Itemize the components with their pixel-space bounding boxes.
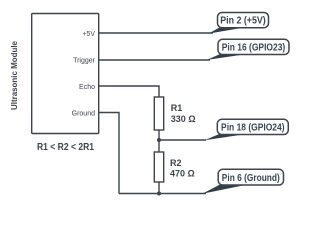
wire R1 to R2 bbox=[158, 130, 160, 152]
svg-text:Pin 16 (GPIO23): Pin 16 (GPIO23) bbox=[222, 43, 286, 54]
svg-text:R1 < R2 < 2R1: R1 < R2 < 2R1 bbox=[37, 142, 94, 153]
ultrasonic module U1 box bbox=[32, 14, 99, 134]
svg-text:Ground: Ground bbox=[72, 111, 95, 118]
callout Pin 2 (+5V) bbox=[209, 13, 269, 34]
svg-text:R1: R1 bbox=[171, 103, 183, 113]
svg-text:Pin 2 (+5V): Pin 2 (+5V) bbox=[220, 16, 266, 27]
wire Echo to R1 bbox=[99, 86, 159, 97]
wire Ground pin down bbox=[99, 113, 119, 194]
svg-text:Echo: Echo bbox=[79, 84, 95, 91]
junction node R1/R2 bbox=[157, 138, 161, 142]
svg-text:Trigger: Trigger bbox=[73, 58, 96, 65]
resistor R1 bbox=[154, 97, 163, 130]
resistor R2 bbox=[154, 152, 163, 182]
svg-text:Pin 18 (GPIO24): Pin 18 (GPIO24) bbox=[221, 123, 285, 134]
svg-text:Pin 6 (Ground): Pin 6 (Ground) bbox=[222, 173, 280, 184]
callout Pin 16 (GPIO23) bbox=[207, 39, 289, 60]
wire junction to Pin18 bbox=[159, 139, 206, 141]
svg-text:+5V: +5V bbox=[82, 31, 95, 38]
wire R2 to rail bbox=[158, 182, 160, 194]
callout Pin 6 (Ground) bbox=[202, 169, 283, 193]
callout Pin 18 (GPIO24) bbox=[205, 119, 289, 140]
wire ground rail bbox=[119, 193, 206, 195]
svg-text:470 Ω: 470 Ω bbox=[170, 169, 195, 179]
svg-text:330 Ω: 330 Ω bbox=[171, 114, 196, 124]
wire Trigger bbox=[99, 59, 210, 61]
svg-text:Ultrasonic Module: Ultrasonic Module bbox=[9, 41, 19, 110]
wire +5V bbox=[99, 32, 213, 34]
junction node ground rail bbox=[157, 192, 161, 196]
svg-text:R2: R2 bbox=[170, 158, 182, 168]
